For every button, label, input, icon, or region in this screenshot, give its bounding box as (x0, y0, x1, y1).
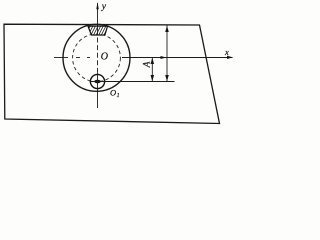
small arrow on x axis at right dim line (161, 56, 167, 59)
right dimension line (166, 26, 168, 82)
cavity circle O (63, 24, 130, 91)
y axis arrow (96, 2, 99, 9)
dashed circle (path of O1) (73, 34, 121, 82)
dimension line A (151, 58, 153, 82)
y axis line (97, 3, 99, 108)
x axis arrow (227, 56, 233, 59)
right dim top arrow (165, 26, 169, 32)
pin at O1 (94, 80, 101, 83)
dim A bottom arrow (151, 75, 155, 81)
plate outline (4, 24, 220, 123)
O1 horizontal line (90, 81, 175, 83)
x axis line (54, 57, 233, 59)
svg-text:x: x (224, 47, 229, 57)
svg-text:O: O (101, 51, 108, 62)
svg-text:O: O (110, 87, 116, 97)
svg-text:1: 1 (117, 93, 120, 99)
svg-text:A: A (142, 61, 152, 68)
right dim bottom arrow (165, 75, 169, 81)
dim A top arrow (151, 58, 155, 64)
hatched block (85, 23, 115, 37)
svg-text:y: y (101, 2, 107, 12)
roller circle O1 (90, 74, 104, 88)
